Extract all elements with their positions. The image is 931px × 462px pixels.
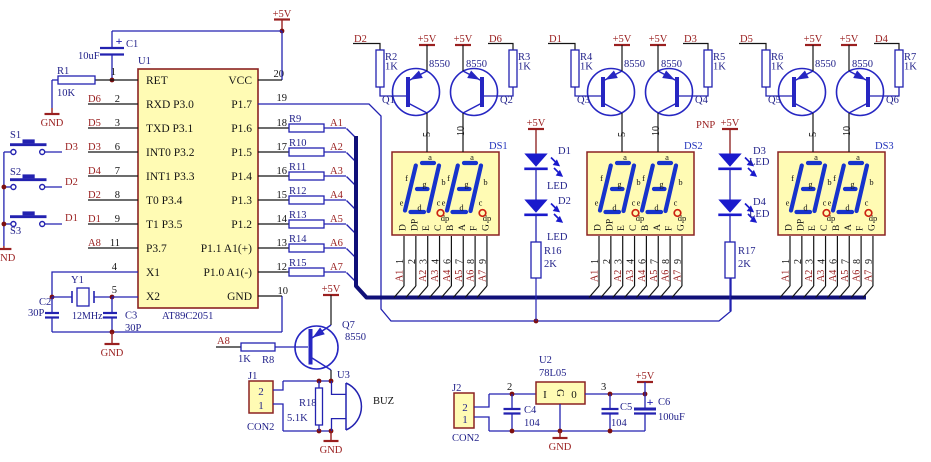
svg-text:dp: dp [483, 213, 492, 223]
svg-text:5.1K: 5.1K [287, 413, 308, 424]
svg-text:7: 7 [115, 166, 120, 177]
svg-text:+5V: +5V [636, 371, 655, 382]
svg-text:b: b [827, 177, 831, 187]
svg-text:8550: 8550 [429, 59, 450, 70]
svg-text:+5V: +5V [527, 118, 546, 129]
svg-text:Q4: Q4 [695, 95, 709, 106]
svg-text:A7: A7 [477, 270, 488, 282]
svg-text:8550: 8550 [345, 332, 366, 343]
svg-text:RET: RET [146, 75, 168, 87]
svg-text:A6: A6 [330, 238, 343, 249]
svg-text:c: c [479, 198, 483, 208]
svg-text:C3: C3 [125, 311, 137, 322]
svg-text:10uF: 10uF [78, 51, 100, 62]
svg-text:A6: A6 [466, 270, 477, 282]
svg-text:a: a [814, 152, 818, 162]
svg-text:S1: S1 [10, 130, 21, 141]
svg-text:C4: C4 [524, 405, 537, 416]
svg-text:1: 1 [111, 67, 116, 78]
svg-text:f: f [642, 173, 645, 183]
svg-text:1K: 1K [713, 62, 726, 73]
svg-text:D1: D1 [558, 146, 571, 157]
svg-text:f: f [791, 173, 794, 183]
svg-text:A1: A1 [781, 270, 792, 282]
svg-text:1: 1 [590, 259, 601, 264]
svg-text:D1: D1 [65, 213, 78, 224]
svg-text:a: a [428, 152, 432, 162]
svg-text:C1: C1 [126, 39, 138, 50]
svg-text:3: 3 [115, 118, 120, 129]
svg-text:4: 4 [817, 259, 828, 264]
svg-text:J1: J1 [248, 371, 257, 382]
svg-text:D4: D4 [88, 166, 102, 177]
svg-text:A5: A5 [454, 270, 465, 282]
svg-text:R16: R16 [544, 246, 562, 257]
svg-text:A: A [844, 224, 854, 231]
svg-text:1K: 1K [238, 354, 251, 365]
svg-text:A5: A5 [330, 214, 343, 225]
svg-text:A1: A1 [395, 270, 406, 282]
svg-text:D5: D5 [88, 118, 101, 129]
svg-text:GND: GND [549, 442, 572, 453]
svg-text:2: 2 [115, 94, 120, 105]
svg-text:PNP: PNP [696, 120, 715, 131]
svg-text:R17: R17 [738, 246, 756, 257]
svg-text:+: + [647, 395, 654, 409]
svg-text:e: e [786, 198, 790, 208]
svg-text:b: b [636, 177, 640, 187]
svg-text:a: a [856, 152, 860, 162]
svg-text:R1: R1 [57, 66, 69, 77]
svg-text:P1.6: P1.6 [231, 123, 252, 135]
svg-text:+5V: +5V [273, 9, 292, 20]
svg-text:0: 0 [571, 389, 577, 401]
svg-text:TXD P3.1: TXD P3.1 [146, 123, 194, 135]
svg-text:A4: A4 [637, 270, 648, 282]
svg-text:6: 6 [442, 259, 453, 264]
svg-text:CON2: CON2 [247, 422, 274, 433]
svg-text:A7: A7 [672, 270, 683, 282]
svg-text:c: c [632, 198, 636, 208]
svg-text:D2: D2 [88, 190, 101, 201]
svg-text:2: 2 [602, 259, 613, 264]
svg-text:4: 4 [626, 259, 637, 264]
svg-text:S2: S2 [10, 167, 21, 178]
svg-text:e: e [828, 198, 832, 208]
svg-text:+5V: +5V [840, 34, 859, 45]
svg-text:2: 2 [258, 386, 264, 398]
svg-text:1K: 1K [771, 62, 784, 73]
svg-text:DS3: DS3 [875, 141, 894, 152]
svg-text:A5: A5 [649, 270, 660, 282]
svg-text:D4: D4 [753, 197, 767, 208]
svg-text:dp: dp [636, 213, 645, 223]
svg-text:A: A [653, 224, 663, 231]
svg-text:C6: C6 [658, 397, 670, 408]
svg-text:D3: D3 [753, 146, 766, 157]
svg-text:7: 7 [649, 259, 660, 264]
svg-text:Q3: Q3 [577, 95, 590, 106]
svg-text:J2: J2 [452, 383, 461, 394]
svg-text:E: E [617, 225, 627, 231]
svg-text:P1.0 A1(-): P1.0 A1(-) [203, 267, 252, 279]
svg-text:+5V: +5V [649, 34, 668, 45]
svg-text:9: 9 [673, 259, 684, 264]
svg-text:3: 3 [805, 259, 816, 264]
svg-text:VCC: VCC [228, 75, 252, 87]
svg-text:b: b [441, 177, 445, 187]
svg-text:8550: 8550 [852, 59, 873, 70]
svg-text:D3: D3 [88, 142, 101, 153]
svg-text:A2: A2 [330, 142, 343, 153]
svg-text:2: 2 [507, 382, 512, 393]
svg-text:6: 6 [637, 259, 648, 264]
svg-text:G: G [554, 389, 566, 397]
svg-text:+5V: +5V [454, 34, 473, 45]
svg-text:11: 11 [110, 238, 120, 249]
svg-text:3: 3 [614, 259, 625, 264]
svg-text:P1.7: P1.7 [231, 99, 252, 111]
svg-text:GND: GND [320, 445, 343, 456]
svg-text:1K: 1K [385, 62, 398, 73]
svg-text:LED: LED [547, 232, 568, 243]
svg-text:1K: 1K [904, 62, 917, 73]
svg-text:104: 104 [611, 418, 628, 429]
svg-text:Q5: Q5 [768, 95, 781, 106]
svg-text:10K: 10K [57, 88, 76, 99]
svg-text:b: b [678, 177, 682, 187]
svg-text:DS1: DS1 [489, 141, 508, 152]
svg-text:A3: A3 [430, 270, 441, 282]
svg-text:30P: 30P [28, 308, 45, 319]
svg-text:10: 10 [456, 126, 467, 136]
svg-text:1K: 1K [580, 62, 593, 73]
svg-text:a: a [665, 152, 669, 162]
svg-text:A2: A2 [804, 270, 815, 282]
svg-text:A5: A5 [840, 270, 851, 282]
svg-text:GND: GND [227, 291, 252, 303]
svg-text:+5V: +5V [804, 34, 823, 45]
svg-text:U2: U2 [539, 355, 552, 366]
svg-text:104: 104 [524, 418, 541, 429]
svg-text:1K: 1K [518, 62, 531, 73]
svg-text:8550: 8550 [815, 59, 836, 70]
svg-text:R9: R9 [289, 114, 301, 125]
svg-text:A1: A1 [590, 270, 601, 282]
svg-text:Q1: Q1 [382, 95, 395, 106]
svg-text:LED: LED [749, 209, 770, 220]
svg-text:I: I [543, 389, 547, 401]
svg-text:INT1 P3.3: INT1 P3.3 [146, 171, 195, 183]
svg-text:5: 5 [112, 285, 117, 296]
svg-text:DS2: DS2 [684, 141, 703, 152]
svg-text:P1.4: P1.4 [231, 171, 252, 183]
svg-text:+5V: +5V [613, 34, 632, 45]
svg-text:8550: 8550 [624, 59, 645, 70]
svg-text:6: 6 [828, 259, 839, 264]
svg-text:e: e [400, 198, 404, 208]
svg-text:P1.3: P1.3 [231, 195, 252, 207]
svg-text:A3: A3 [330, 166, 343, 177]
svg-text:A4: A4 [442, 270, 453, 282]
svg-text:C: C [629, 225, 639, 231]
svg-text:5: 5 [617, 132, 628, 137]
svg-text:A8: A8 [217, 336, 230, 347]
svg-text:2: 2 [793, 259, 804, 264]
svg-text:4: 4 [431, 259, 442, 264]
svg-text:1: 1 [462, 414, 468, 426]
svg-text:R10: R10 [289, 138, 307, 149]
svg-text:+5V: +5V [721, 118, 740, 129]
svg-text:S3: S3 [10, 226, 21, 237]
svg-text:A6: A6 [852, 270, 863, 282]
svg-text:A1: A1 [330, 118, 343, 129]
svg-text:D2: D2 [65, 177, 78, 188]
svg-text:U3: U3 [337, 370, 350, 381]
svg-text:3: 3 [601, 382, 606, 393]
svg-text:2: 2 [407, 259, 418, 264]
svg-text:A3: A3 [625, 270, 636, 282]
svg-text:C5: C5 [620, 402, 632, 413]
svg-text:A2: A2 [613, 270, 624, 282]
svg-text:a: a [470, 152, 474, 162]
svg-text:D2: D2 [558, 196, 571, 207]
svg-text:R13: R13 [289, 210, 307, 221]
svg-text:P1.5: P1.5 [231, 147, 252, 159]
svg-text:1: 1 [258, 400, 264, 412]
svg-text:B: B [832, 225, 842, 231]
svg-text:R14: R14 [289, 234, 307, 245]
svg-text:A8: A8 [88, 238, 101, 249]
svg-text:E: E [808, 225, 818, 231]
svg-text:P1.2: P1.2 [231, 219, 252, 231]
svg-text:f: f [447, 173, 450, 183]
svg-text:C: C [434, 225, 444, 231]
svg-text:e: e [442, 198, 446, 208]
svg-text:b: b [869, 177, 873, 187]
svg-text:LED: LED [749, 157, 770, 168]
svg-text:A2: A2 [418, 270, 429, 282]
svg-text:F: F [856, 226, 866, 231]
svg-text:LED: LED [547, 181, 568, 192]
svg-text:A3: A3 [816, 270, 827, 282]
svg-text:12MHz: 12MHz [72, 311, 103, 322]
svg-text:2K: 2K [544, 259, 557, 270]
svg-text:2K: 2K [738, 259, 751, 270]
svg-text:10: 10 [842, 126, 853, 136]
svg-text:f: f [600, 173, 603, 183]
svg-text:X2: X2 [146, 291, 160, 303]
svg-text:Q7: Q7 [342, 320, 355, 331]
svg-text:a: a [623, 152, 627, 162]
svg-text:A7: A7 [863, 270, 874, 282]
svg-text:A4: A4 [828, 270, 839, 282]
svg-text:Q2: Q2 [500, 95, 513, 106]
svg-text:dp: dp [869, 213, 878, 223]
svg-text:DP: DP [410, 219, 420, 231]
svg-text:f: f [405, 173, 408, 183]
svg-text:8: 8 [115, 190, 120, 201]
svg-text:8550: 8550 [661, 59, 682, 70]
svg-text:D: D [594, 224, 604, 231]
svg-text:F: F [470, 226, 480, 231]
svg-text:f: f [833, 173, 836, 183]
svg-text:U1: U1 [138, 56, 151, 67]
svg-text:A: A [458, 224, 468, 231]
svg-text:R15: R15 [289, 258, 307, 269]
svg-text:P3.7: P3.7 [146, 243, 167, 255]
svg-text:+5V: +5V [418, 34, 437, 45]
svg-text:D1: D1 [88, 214, 101, 225]
svg-text:8: 8 [661, 259, 672, 264]
svg-text:5: 5 [422, 132, 433, 137]
svg-text:c: c [437, 198, 441, 208]
svg-text:100uF: 100uF [658, 412, 685, 423]
svg-text:78L05: 78L05 [539, 368, 566, 379]
svg-text:RXD P3.0: RXD P3.0 [146, 99, 194, 111]
svg-text:C2: C2 [39, 297, 51, 308]
svg-text:9: 9 [115, 214, 120, 225]
svg-text:DP: DP [605, 219, 615, 231]
svg-text:Q6: Q6 [886, 95, 899, 106]
svg-text:A7: A7 [330, 262, 343, 273]
svg-text:G: G [481, 224, 491, 231]
svg-text:2: 2 [462, 402, 468, 414]
svg-text:b: b [483, 177, 487, 187]
svg-text:A6: A6 [661, 270, 672, 282]
svg-text:Y1: Y1 [71, 275, 84, 286]
svg-text:8550: 8550 [466, 59, 487, 70]
svg-text:dp: dp [441, 213, 450, 223]
svg-text:T1 P3.5: T1 P3.5 [146, 219, 183, 231]
svg-text:D3: D3 [65, 142, 78, 153]
svg-text:D6: D6 [88, 94, 101, 105]
svg-text:GND: GND [101, 348, 124, 359]
svg-text:INT0 P3.2: INT0 P3.2 [146, 147, 195, 159]
svg-text:DP: DP [796, 219, 806, 231]
svg-text:7: 7 [840, 259, 851, 264]
svg-text:R8: R8 [262, 355, 274, 366]
svg-text:dp: dp [678, 213, 687, 223]
svg-text:B: B [641, 225, 651, 231]
svg-text:GND: GND [41, 118, 64, 129]
svg-text:R18: R18 [299, 398, 317, 409]
svg-text:e: e [595, 198, 599, 208]
svg-text:A4: A4 [330, 190, 344, 201]
svg-text:9: 9 [864, 259, 875, 264]
svg-text:1: 1 [395, 259, 406, 264]
svg-text:R12: R12 [289, 186, 307, 197]
svg-text:c: c [865, 198, 869, 208]
svg-text:R11: R11 [289, 162, 306, 173]
svg-text:F: F [665, 226, 675, 231]
svg-text:E: E [422, 225, 432, 231]
svg-text:BUZ: BUZ [373, 396, 394, 407]
svg-text:3: 3 [419, 259, 430, 264]
svg-text:8: 8 [852, 259, 863, 264]
svg-text:e: e [637, 198, 641, 208]
svg-text:7: 7 [454, 259, 465, 264]
svg-text:D: D [785, 224, 795, 231]
svg-text:+5V: +5V [322, 284, 341, 295]
svg-text:G: G [676, 224, 686, 231]
svg-text:+: + [116, 34, 123, 48]
svg-text:6: 6 [115, 142, 120, 153]
svg-text:B: B [446, 225, 456, 231]
svg-text:5: 5 [808, 132, 819, 137]
svg-text:AT89C2051: AT89C2051 [162, 311, 213, 322]
svg-text:19: 19 [277, 93, 288, 104]
svg-text:G: G [867, 224, 877, 231]
svg-text:P1.1 A1(+): P1.1 A1(+) [201, 243, 252, 255]
svg-text:c: c [674, 198, 678, 208]
svg-text:CON2: CON2 [452, 433, 479, 444]
svg-text:9: 9 [478, 259, 489, 264]
svg-text:dp: dp [827, 213, 836, 223]
svg-text:8: 8 [466, 259, 477, 264]
svg-text:1: 1 [781, 259, 792, 264]
svg-text:X1: X1 [146, 267, 160, 279]
svg-text:GND: GND [0, 253, 16, 264]
svg-text:T0 P3.4: T0 P3.4 [146, 195, 183, 207]
svg-text:10: 10 [651, 126, 662, 136]
svg-text:D: D [399, 224, 409, 231]
svg-text:C: C [820, 225, 830, 231]
svg-text:c: c [823, 198, 827, 208]
